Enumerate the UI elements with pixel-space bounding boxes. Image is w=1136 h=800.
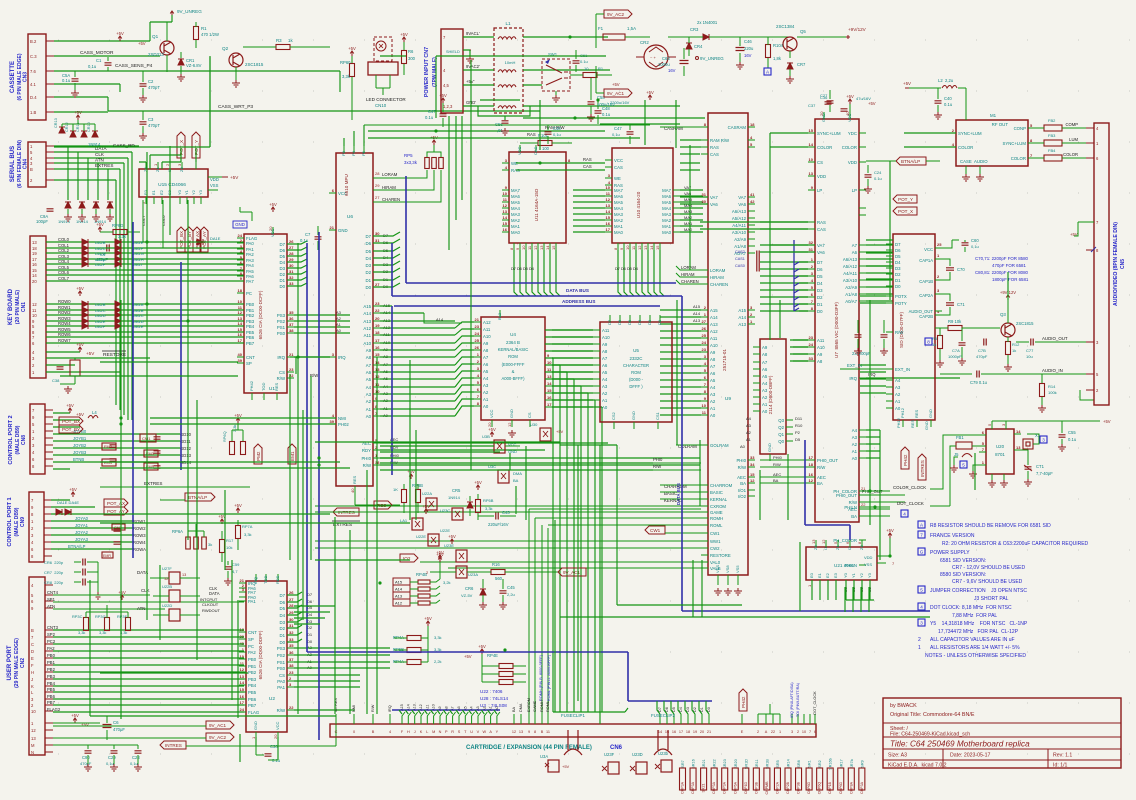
label M1 RF OUT (990, 113, 1008, 127)
glabels 9VAC user (53, 721, 234, 741)
svg-text:9V_AC2: 9V_AC2 (607, 12, 625, 17)
svg-text:C24: C24 (874, 170, 882, 175)
label COL7 COL0 vertical (141, 200, 166, 248)
svg-text:M: M (31, 743, 35, 748)
svg-text:CNT: CNT (248, 630, 257, 635)
svg-text:0.1u: 0.1u (874, 176, 882, 181)
svg-text:+5V: +5V (464, 654, 472, 659)
svg-text:A15: A15 (395, 580, 403, 585)
svg-text:6526 CIA (DC00-DCFF): 6526 CIA (DC00-DCFF) (258, 290, 263, 339)
svg-text:470 1/2W: 470 1/2W (201, 32, 219, 37)
svg-text:DA1E: DA1E (210, 236, 221, 241)
svg-text:U3C: U3C (488, 464, 496, 469)
global label PH42 sid (901, 447, 909, 469)
fuseclip1 sym (561, 713, 585, 755)
svg-text:CW2: CW2 (710, 546, 720, 551)
svg-text:+5V: +5V (400, 32, 408, 37)
svg-text:13: 13 (182, 573, 186, 577)
RP6A cluster (172, 524, 212, 549)
cartridge vertical labels (334, 698, 711, 712)
svg-text:PA1: PA1 (248, 599, 256, 604)
svg-text:P4: P4 (351, 150, 356, 156)
svg-text:10: 10 (32, 313, 37, 318)
svg-text:13: 13 (31, 736, 36, 741)
svg-text:+5V: +5V (230, 175, 239, 180)
svg-text:A8: A8 (710, 357, 716, 362)
svg-text:SP: SP (246, 361, 252, 366)
svg-text:A13: A13 (395, 594, 403, 599)
svg-text:A2: A2 (746, 430, 752, 435)
global label POT_X (177, 132, 185, 158)
svg-text:U15 CD4066: U15 CD4066 (158, 182, 186, 188)
transistor Q3 (1000, 312, 1034, 337)
svg-text:E: E (31, 656, 34, 661)
svg-text:D2: D2 (280, 272, 286, 277)
IC U11 4164 RAM (502, 145, 573, 250)
svg-text:20: 20 (268, 226, 273, 231)
svg-text:31: 31 (702, 192, 707, 197)
svg-text:0,1u: 0,1u (130, 761, 138, 766)
svg-text:MA0: MA0 (684, 227, 693, 232)
wires pla to cartridge drops (529, 509, 701, 714)
svg-text:13: 13 (503, 209, 508, 214)
notes text block (918, 521, 1089, 659)
power +5V U4 (488, 427, 516, 437)
svg-text:37: 37 (289, 322, 294, 327)
svg-text:COL6: COL6 (58, 270, 70, 275)
svg-text:38: 38 (375, 460, 380, 465)
svg-text:ATN: ATN (137, 606, 145, 611)
fuseclip FUSECLIP1 (0, 0, 1, 1)
svg-text:13: 13 (539, 245, 544, 250)
svg-text:16: 16 (32, 262, 37, 267)
svg-text:EMR: EMR (103, 554, 111, 558)
svg-text:D4: D4 (817, 281, 823, 286)
svg-text:0.1u: 0.1u (580, 59, 588, 64)
svg-text:16: 16 (606, 221, 611, 226)
svg-text:CHPMB: CHPMB (765, 781, 769, 795)
svg-text:A2: A2 (852, 442, 858, 447)
power flag 9V_UNREG (170, 9, 202, 15)
svg-text:18: 18 (375, 330, 380, 335)
svg-text:+5V: +5V (86, 351, 95, 356)
svg-text:A1: A1 (710, 406, 716, 411)
svg-text:D7: D7 (307, 592, 313, 597)
svg-text:A14: A14 (710, 315, 718, 320)
svg-text:JOYB2: JOYB2 (73, 443, 87, 448)
svg-text:9V_AC1: 9V_AC1 (209, 723, 227, 728)
svg-text:R/W: R/W (277, 708, 286, 713)
svg-text:CW1: CW1 (650, 528, 661, 533)
label RAM R/W (527, 125, 592, 169)
svg-text:RP7A: RP7A (242, 524, 253, 529)
svg-text:A0: A0 (366, 414, 372, 419)
svg-text:CAS0: CAS0 (735, 264, 745, 268)
svg-text:ROML (PIN11. A000-BFFF): ROML (PIN11. A000-BFFF) (547, 654, 551, 701)
svg-text:U9: U9 (725, 396, 731, 402)
svg-text:A2: A2 (762, 395, 768, 400)
svg-text:BA: BA (513, 478, 519, 483)
svg-text:A0: A0 (710, 413, 716, 418)
svg-text:D7: D7 (607, 319, 612, 325)
diode CR7 (786, 62, 806, 83)
svg-text:TOD: TOD (263, 576, 268, 584)
svg-text:SR1B: SR1B (765, 759, 769, 769)
capacitor C43 (478, 510, 516, 527)
svg-text:POT_BX: POT_BX (62, 419, 80, 424)
svg-text:C27: C27 (820, 93, 828, 98)
svg-text:CAS1: CAS1 (735, 257, 745, 261)
svg-text:MA0: MA0 (511, 230, 520, 235)
svg-text:24: 24 (475, 331, 480, 336)
svg-text:17: 17 (547, 402, 552, 407)
svg-text:A10: A10 (710, 343, 718, 348)
svg-text:U23F: U23F (604, 752, 615, 757)
svg-text:VA6: VA6 (710, 202, 718, 207)
svg-text:ATN: ATN (95, 158, 104, 163)
resistor RP60 (340, 46, 356, 120)
svg-text:Z3: Z3 (179, 167, 184, 172)
svg-text:3,3k: 3,3k (232, 425, 237, 432)
labels A15-A12 boxed (393, 578, 410, 606)
svg-text:A4: A4 (366, 385, 372, 390)
svg-text:L: L (426, 730, 428, 734)
connector CN8 control port 2 (30, 404, 53, 474)
svg-text:VA7: VA7 (684, 185, 692, 190)
label CM1 (140, 434, 156, 442)
svg-text:C55: C55 (1068, 430, 1076, 435)
capacitor C45 mid (499, 579, 515, 609)
svg-text:13: 13 (519, 730, 523, 734)
power +5V cassette (116, 31, 124, 41)
capacitor C30 (256, 739, 281, 763)
svg-text:K: K (31, 684, 34, 689)
gate U23C mid (440, 508, 463, 520)
bus cartridge address feed (392, 709, 500, 711)
label CASS_WRT_P3 (218, 104, 253, 110)
svg-text:A13: A13 (710, 322, 718, 327)
svg-text:PH42: PH42 (741, 696, 746, 708)
svg-text:A1: A1 (762, 402, 768, 407)
svg-text:24: 24 (702, 340, 707, 345)
svg-text:1800pF FOR 6581: 1800pF FOR 6581 (992, 277, 1029, 282)
svg-text:C40: C40 (944, 96, 952, 101)
global label POT_Y (192, 132, 200, 158)
svg-text:19: 19 (375, 323, 380, 328)
svg-text:A2/A9: A2/A9 (845, 285, 857, 290)
svg-text:1000pF: 1000pF (948, 354, 962, 359)
svg-text:RAS: RAS (527, 132, 536, 137)
svg-text:CN3: CN3 (23, 72, 29, 82)
svg-text:CR7 - 12,0V SHOULD BE USED: CR7 - 12,0V SHOULD BE USED (952, 565, 1025, 571)
label DOT_CLOCK (897, 501, 950, 517)
svg-text:Q2: Q2 (778, 425, 784, 430)
svg-text:CN4: CN4 (23, 159, 29, 169)
svg-text:E: E (741, 730, 744, 734)
svg-text:Y0: Y0 (177, 189, 182, 195)
svg-text:PH02: PH02 (338, 422, 349, 427)
svg-text:RP4B: RP4B (416, 572, 427, 577)
caps CAS2 CAS1 CAS0 (735, 250, 759, 272)
svg-text:D7: D7 (615, 267, 620, 271)
svg-text:A8: A8 (483, 348, 489, 353)
svg-text:3,3k: 3,3k (485, 506, 493, 511)
svg-text:34: 34 (750, 462, 755, 467)
svg-text:U3B: U3B (482, 434, 490, 439)
svg-text:INTRES: INTRES (920, 460, 925, 477)
resistor RP6G (100, 223, 140, 239)
svg-text:KERNAL: KERNAL (710, 497, 728, 502)
label COLOR_CLOCK (893, 485, 926, 490)
capacitor C1 (88, 57, 112, 71)
capacitor C4 (88, 245, 130, 263)
svg-text:+5V: +5V (234, 503, 242, 508)
text U5 inside (623, 348, 649, 389)
svg-text:CASS_SENS_P4: CASS_SENS_P4 (115, 63, 153, 69)
svg-text:A2: A2 (602, 391, 608, 396)
svg-text:35: 35 (289, 643, 294, 648)
svg-text:A8: A8 (762, 352, 768, 357)
caps C90 C29 C28 (53, 745, 142, 771)
svg-text:C70: C70 (957, 267, 965, 272)
svg-text:POWER SUPPLY: POWER SUPPLY (930, 550, 970, 556)
svg-text:DA2D: DA2D (95, 251, 106, 256)
note U2x types (480, 689, 509, 708)
svg-text:DATA: DATA (209, 591, 220, 596)
svg-text:A9: A9 (710, 350, 716, 355)
svg-text:19: 19 (32, 251, 37, 256)
svg-text:6510 MPU: 6510 MPU (344, 174, 349, 196)
IC U20 8701 (979, 422, 1021, 474)
svg-text:U: U (470, 730, 473, 734)
svg-text:31: 31 (289, 269, 294, 274)
svg-text:BA: BA (740, 481, 746, 486)
svg-text:3,3k: 3,3k (342, 74, 351, 79)
svg-text:ROWA: ROWA (133, 547, 146, 552)
bus VIC data feed (794, 240, 799, 311)
svg-text:D5: D5 (795, 437, 801, 442)
svg-text:LP: LP (852, 188, 857, 193)
svg-text:A6: A6 (852, 250, 858, 255)
glabels POT_B (59, 417, 83, 433)
svg-text:C2: C2 (148, 79, 154, 84)
svg-text:R: R (451, 730, 454, 734)
svg-text:A11: A11 (364, 333, 372, 338)
svg-text:PH12: PH12 (896, 417, 901, 428)
svg-text:4,7: 4,7 (232, 569, 238, 574)
svg-text:ROW2: ROW2 (133, 526, 146, 531)
svg-text:GND: GND (928, 409, 933, 418)
svg-text:1,8k: 1,8k (773, 56, 782, 61)
svg-text:R9 10k: R9 10k (948, 319, 962, 324)
svg-text:PB3: PB3 (248, 677, 257, 682)
svg-text:CR2: CR2 (640, 40, 649, 45)
ferrite FB2 (1035, 118, 1094, 131)
svg-text:COLOR: COLOR (817, 145, 832, 150)
svg-text:CT1: CT1 (1036, 464, 1045, 469)
svg-text:30: 30 (289, 617, 294, 622)
svg-text:24: 24 (809, 342, 814, 347)
svg-text:23: 23 (475, 324, 480, 329)
svg-text:21: 21 (289, 352, 294, 357)
gate LA1 (400, 504, 430, 530)
label IRQ right (868, 372, 876, 377)
svg-text:10u: 10u (1026, 354, 1033, 359)
svg-text:COL7: COL7 (58, 276, 70, 281)
svg-text:C70,71: 2200pF FOR 8580: C70,71: 2200pF FOR 8580 (975, 256, 1029, 261)
svg-text:ATN: ATN (47, 604, 55, 609)
global label PH42 cartridge (739, 689, 747, 711)
svg-text:R/W: R/W (363, 463, 372, 468)
svg-text:3,2k: 3,2k (443, 580, 451, 585)
svg-text:A2: A2 (366, 399, 372, 404)
wire field vertical (90, 56, 1008, 762)
svg-text:D7: D7 (817, 260, 823, 265)
svg-text:AUDIO_OUT: AUDIO_OUT (1042, 336, 1068, 341)
svg-text:MA2: MA2 (684, 215, 693, 220)
svg-text:2364 B: 2364 B (506, 340, 520, 345)
svg-text:27: 27 (289, 597, 294, 602)
svg-text:+5V: +5V (348, 46, 356, 51)
svg-text:20: 20 (32, 279, 37, 284)
svg-text:U4: U4 (510, 332, 516, 337)
svg-text:14: 14 (238, 321, 243, 326)
svg-text:17: 17 (809, 455, 814, 460)
svg-text:MA5: MA5 (662, 200, 671, 205)
svg-text:15: 15 (606, 215, 611, 220)
svg-text:POTX: POTX (895, 294, 907, 299)
svg-text:CN5: CN5 (1120, 259, 1126, 269)
svg-text:+5V: +5V (903, 81, 911, 86)
svg-text:A12: A12 (395, 601, 403, 606)
labels DATA CLK ATN gates (137, 570, 150, 611)
cap C27 area (820, 90, 834, 112)
label DATA BUS (566, 288, 589, 293)
capacitor C63 (658, 48, 689, 76)
svg-text:GND: GND (509, 409, 514, 418)
svg-text:VDD: VDD (817, 174, 826, 179)
svg-text:1,2,3: 1,2,3 (443, 104, 453, 109)
svg-text:15: 15 (547, 388, 552, 393)
svg-text:4: 4 (903, 512, 906, 517)
svg-text:R104: R104 (773, 43, 784, 48)
svg-text:15: 15 (375, 352, 380, 357)
svg-text:R/W: R/W (653, 464, 661, 469)
power +5V gates (118, 590, 126, 600)
svg-text:+9V/12V: +9V/12V (848, 27, 867, 32)
svg-text:A6: A6 (483, 362, 489, 367)
marker boxes set (0, 0, 1, 1)
svg-text:B.2: B.2 (30, 39, 37, 44)
svg-text:D11: D11 (795, 416, 803, 421)
svg-text:D7: D7 (280, 242, 286, 247)
svg-text:INTRES: INTRES (338, 510, 355, 515)
svg-text:Original Title: Commodore-64 B: Original Title: Commodore-64 BN/E (890, 712, 975, 718)
svg-text:PS3: PS3 (277, 313, 286, 318)
svg-text:SYNC+LUM: SYNC+LUM (958, 131, 982, 136)
svg-text:RESTORE: RESTORE (103, 352, 126, 358)
svg-text:C7B: C7B (978, 348, 986, 353)
svg-text:DA2B: DA2B (95, 302, 106, 307)
svg-text:470μF: 470μF (113, 727, 125, 732)
svg-text:CHP6Q: CHP6Q (818, 782, 822, 795)
svg-text:CHP8A: CHP8A (849, 781, 853, 794)
label EXTRES serial (95, 163, 113, 168)
svg-text:A1: A1 (483, 397, 489, 402)
svg-text:PA7: PA7 (246, 279, 254, 284)
svg-text:U23D: U23D (632, 752, 643, 757)
svg-text:31: 31 (809, 247, 814, 252)
svg-text:BTNA/LP: BTNA/LP (188, 495, 207, 500)
svg-text:3,3k: 3,3k (434, 635, 442, 640)
svg-text:14: 14 (649, 245, 654, 250)
gate U3B (470, 434, 520, 454)
svg-text:CHP2A: CHP2A (775, 781, 779, 794)
power +5V CIA1 (269, 202, 277, 212)
bus vertical 6510 right (391, 306, 393, 475)
svg-text:470pT: 470pT (148, 123, 160, 128)
svg-text:+5V: +5V (612, 82, 620, 87)
svg-text:30: 30 (375, 231, 380, 236)
svg-text:CHP3A: CHP3A (681, 781, 685, 794)
svg-text:1000u: 1000u (658, 62, 670, 67)
svg-text:D6: D6 (280, 248, 286, 253)
svg-text:PS1: PS1 (277, 660, 286, 665)
marker boxes circuit (0, 0, 1, 1)
power +5V rowdiodes (76, 286, 84, 296)
svg-text:B: B (541, 730, 544, 734)
svg-text:R1: R1 (598, 66, 604, 71)
svg-text:3.3k: 3.3k (118, 234, 127, 239)
svg-text:17: 17 (375, 338, 380, 343)
gate U27F (150, 566, 200, 584)
svg-text:PH12: PH12 (900, 407, 905, 418)
svg-text:+5V: +5V (556, 429, 564, 434)
resistor R2 (570, 66, 612, 78)
svg-text:SP1: SP1 (47, 597, 56, 602)
svg-text:SERIAL BUS: SERIAL BUS (10, 146, 16, 182)
svg-text:10: 10 (375, 389, 380, 394)
svg-text:VA6: VA6 (738, 202, 746, 207)
svg-text:6: 6 (814, 730, 816, 734)
svg-text:VCC: VCC (489, 409, 494, 418)
svg-text:10mH: 10mH (505, 60, 516, 65)
svg-text:MA2: MA2 (662, 218, 671, 223)
svg-text:+5V: +5V (422, 504, 430, 509)
wires VIC right bundles (866, 245, 960, 458)
svg-text:C79 0.1u: C79 0.1u (970, 380, 988, 385)
svg-text:D0: D0 (280, 284, 286, 289)
svg-text:VCC: VCC (517, 146, 522, 155)
svg-text:A4/A11: A4/A11 (732, 223, 746, 228)
svg-text:A4: A4 (762, 381, 768, 386)
svg-text:10: 10 (238, 299, 243, 304)
svg-text:CASRAM: CASRAM (728, 125, 747, 130)
svg-text:DOT_CLOCK: DOT_CLOCK (897, 501, 924, 506)
crystal X1 (1014, 433, 1047, 449)
svg-text:A4: A4 (852, 428, 858, 433)
svg-text:A10: A10 (363, 341, 371, 346)
svg-text:20: 20 (375, 316, 380, 321)
resistor 1K mid (393, 484, 407, 513)
svg-text:D4: D4 (307, 612, 313, 617)
svg-text:S: S (458, 730, 461, 734)
svg-text:9V_UNREG: 9V_UNREG (700, 56, 724, 61)
svg-text:+5V: +5V (71, 713, 79, 718)
label USER PORT (29 PIN MALE EDGE) CN2 (7, 638, 26, 688)
svg-text:MA1: MA1 (614, 224, 623, 229)
svg-text:2SD313: 2SD313 (148, 52, 164, 57)
